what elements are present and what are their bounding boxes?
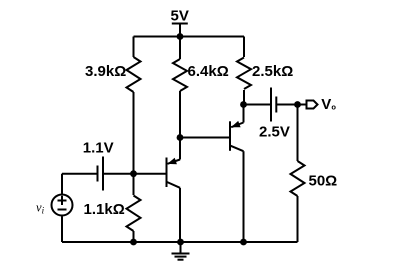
svg-text:6.4kΩ: 6.4kΩ [188,63,229,80]
power terminal 5V [172,24,188,37]
wire R 2.5k to node E2 [243,90,245,105]
wire Q2 emitter to node E2 [243,105,245,123]
resistor 2.5k ohm [237,58,251,90]
wire from rail to R 3.9k [133,37,135,58]
svg-text:2.5V: 2.5V [259,124,290,141]
wire battery to Q1 base [103,173,166,175]
transistor Q2 emitter diagonal [231,123,243,128]
transistor Q1 base bar [166,158,168,188]
wire node B1 to R 1.1k [133,174,135,195]
junction bottom rail ground [177,239,184,246]
svg-text:1.1kΩ: 1.1kΩ [84,201,125,218]
transistor Q1 collector diagonal [167,182,180,188]
wire R 6.4k to node E1 [179,91,181,138]
svg-text:1.1V: 1.1V [83,140,114,157]
svg-text:2.5kΩ: 2.5kΩ [252,63,293,80]
wire top rail 5V [134,36,245,38]
battery 1.1V [98,157,104,191]
output terminal Vo [307,101,318,109]
wire Q2 collector to bottom rail [243,151,245,242]
transistor Q1 emitter diagonal [168,160,181,164]
wire node Vo to R 50 [297,105,299,162]
junction node B1 [130,170,137,177]
svg-text:Vo: Vo [321,96,336,113]
junction node E2 [240,101,247,108]
ground [172,242,190,260]
transistor Q2 base bar [229,121,231,151]
wire battery 2.5V to node Vo [276,104,297,106]
svg-text:5V: 5V [171,8,189,25]
resistor 1.1k ohm [127,196,141,232]
junction node E1 [177,134,184,141]
transistor Q2 emitter arrow [231,121,241,127]
wire bottom rail [62,241,298,243]
wire Q1 emitter to node E1 [179,138,181,160]
resistor 6.4k ohm [173,59,187,91]
wire Q1 collector to bottom rail [179,188,181,242]
svg-text:vi: vi [36,201,45,216]
svg-text:50Ω: 50Ω [309,173,338,190]
wire rail to R 2.5k [243,37,245,58]
battery 2.5V [271,88,276,122]
wire node E2 to battery 2.5V [244,104,271,106]
svg-text:3.9kΩ: 3.9kΩ [85,63,126,80]
wire vi to bottom rail [61,216,63,242]
junction bottom rail Q2 [240,239,247,246]
transistor Q1 emitter arrow [167,158,177,165]
wire node E1 to Q2 base [180,137,229,139]
wire rail to R 6.4k [179,37,181,60]
wire node Vo to output terminal [298,104,307,106]
junction node Vo [294,101,301,108]
resistor 3.9k ohm [127,57,141,92]
source vi [52,195,73,216]
resistor 50 ohm [291,161,305,196]
junction 5V rail [177,33,184,40]
wire R 50 to bottom rail [297,196,299,242]
junction bottom rail left [130,239,137,246]
wire R 1.1k to bottom rail [133,231,135,242]
transistor Q2 collector diagonal [231,146,244,151]
wire top corner to battery 1.1V [62,173,97,175]
wire R 3.9k to node B1 [133,92,135,174]
wire vi to top corner [61,174,63,196]
